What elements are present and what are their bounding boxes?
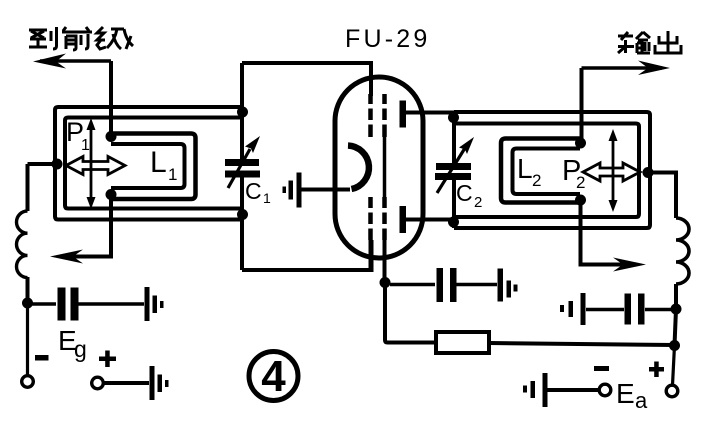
- label P1: [66, 117, 90, 154]
- label L2: [517, 153, 541, 190]
- svg-text:L: L: [517, 153, 533, 184]
- node hairpin L1 bottom: [106, 189, 117, 200]
- cathode arc: [348, 146, 369, 190]
- node Ea junction: [669, 340, 680, 351]
- screen bypass capacitor: [390, 268, 497, 302]
- svg-text:g: g: [74, 336, 87, 362]
- ground at Eg plus: [150, 366, 169, 400]
- capacitor C1 arrow: [228, 136, 260, 188]
- node Eg junction: [22, 298, 33, 309]
- wire hairpin L2 bottom to tap arrow: [581, 200, 634, 265]
- terminal plus circle Ea: [666, 385, 678, 397]
- svg-text:2: 2: [474, 194, 482, 211]
- label Eg: [58, 325, 87, 362]
- wire choke to Ea junction: [675, 309, 677, 346]
- svg-text:2: 2: [576, 173, 585, 192]
- wire tank top to grid 1: [242, 63, 371, 96]
- svg-text:L: L: [150, 146, 167, 179]
- terminal plus circle Eg: [92, 377, 104, 389]
- wire from arrow down to hairpin top: [109, 61, 113, 134]
- wire junction to plus terminal: [673, 346, 675, 386]
- svg-text:1: 1: [263, 190, 271, 206]
- grid 2 dashes lower: [371, 197, 385, 240]
- plus sign Eg: [99, 351, 116, 368]
- wire box edge to plate choke: [648, 173, 676, 219]
- wire plate lower to C2: [406, 218, 454, 222]
- right shield box inner U: [454, 124, 639, 218]
- svg-text:E: E: [616, 378, 635, 409]
- output arrow: [582, 61, 671, 76]
- ground at grid bypass: [145, 287, 164, 321]
- plate bypass capacitor: [586, 294, 676, 325]
- node box left edge / loop feed: [52, 159, 63, 170]
- node hairpin L1 top: [106, 131, 117, 142]
- hairpin inductor L2 inner: [513, 149, 581, 195]
- tap arrow left: [50, 250, 83, 264]
- wire down to choke: [26, 164, 30, 211]
- grid 1 dashes upper: [371, 94, 385, 137]
- ground at cathode: [283, 173, 302, 208]
- ground at plate bypass: [560, 293, 586, 325]
- variable capacitor C1 line top: [240, 63, 244, 160]
- hairpin inductor L2 outer: [501, 139, 580, 203]
- wire coil to box: [28, 162, 58, 166]
- plate choke coil: [676, 218, 689, 284]
- terminal minus circle: [22, 376, 34, 388]
- grid bypass capacitor: [32, 288, 144, 321]
- wire minus to ground: [547, 388, 599, 392]
- node hairpin L2 bottom: [575, 195, 586, 206]
- svg-text:C: C: [456, 180, 473, 206]
- plate bar upper: [400, 101, 407, 128]
- wire plus to ground: [103, 381, 149, 385]
- svg-text:4: 4: [261, 352, 286, 401]
- left shield box outer U: [55, 107, 242, 220]
- coupling arrow P2 vertical: [609, 129, 618, 212]
- wire hairpin bottom to tap arrow: [62, 195, 111, 257]
- wire tank bottom to grid 2: [242, 240, 372, 270]
- node hairpin L2 top: [575, 138, 586, 149]
- wire resistor to Ea line: [489, 343, 674, 345]
- wire plate upper to C2: [406, 111, 454, 115]
- hairpin inductor L1 inner: [111, 144, 185, 188]
- cathode lead: [298, 188, 350, 192]
- capacitor C1 plates: [225, 159, 260, 178]
- figure number circle 4: [249, 352, 298, 401]
- plus sign Ea: [649, 362, 664, 378]
- coupling arrow P2 horizontal (outline): [583, 163, 640, 181]
- grid choke coil: [16, 211, 27, 278]
- node screen junction: [380, 277, 391, 288]
- tap arrow right: [613, 258, 646, 272]
- right shield box outer U: [454, 112, 650, 228]
- svg-text:FU-29: FU-29: [345, 25, 430, 53]
- label P2: [562, 155, 585, 192]
- svg-text:1: 1: [168, 165, 177, 184]
- node tank bottom right: [448, 217, 459, 228]
- wire choke down: [674, 284, 678, 309]
- variable capacitor C2 line bottom: [452, 180, 456, 228]
- svg-text:a: a: [635, 388, 648, 413]
- terminal minus circle Ea: [599, 384, 611, 396]
- ground at Ea minus: [523, 373, 548, 407]
- node tank bottom left: [237, 209, 248, 220]
- svg-text:2: 2: [532, 171, 541, 190]
- arrow to previous stage: [33, 54, 111, 69]
- capacitor C2 plates: [435, 163, 471, 180]
- node plate bypass junction: [671, 304, 682, 315]
- grid 2 lead down: [369, 240, 373, 270]
- node box right edge / output loop: [643, 167, 654, 178]
- label L1: [150, 146, 177, 184]
- minus sign Ea: [594, 366, 609, 371]
- resistor screen dropping: [436, 332, 489, 353]
- node tank top right: [448, 112, 459, 123]
- label 输出 (output): [618, 31, 681, 53]
- screen connection middle: [383, 137, 387, 198]
- hairpin inductor L1 outer: [111, 134, 196, 200]
- variable capacitor C1 line bottom: [240, 177, 244, 270]
- label Ea: [616, 378, 648, 413]
- wire screen junction down: [385, 283, 436, 343]
- node tank top left: [237, 107, 248, 118]
- wire choke to junction: [26, 277, 30, 303]
- variable capacitor C2 line top: [452, 112, 456, 164]
- label C1: [245, 178, 271, 206]
- wire junction to minus terminal: [26, 303, 29, 376]
- coupling arrow P1 vertical: [87, 118, 96, 209]
- plate bar lower: [400, 206, 407, 233]
- capacitor C2 arrow: [437, 137, 474, 193]
- left shield box inner U: [65, 118, 242, 209]
- label 到前级 (to previous stage): [29, 27, 133, 50]
- svg-text:1: 1: [81, 137, 90, 154]
- wire output down to hairpin: [580, 68, 584, 140]
- tube FU-29 envelope: [335, 77, 423, 258]
- minus sign Eg: [35, 355, 49, 361]
- coupling arrow P1 horizontal (outline): [66, 157, 125, 175]
- screen lead down: [383, 240, 387, 284]
- svg-text:C: C: [245, 178, 262, 204]
- ground at screen bypass: [498, 269, 518, 302]
- label C2: [456, 180, 482, 211]
